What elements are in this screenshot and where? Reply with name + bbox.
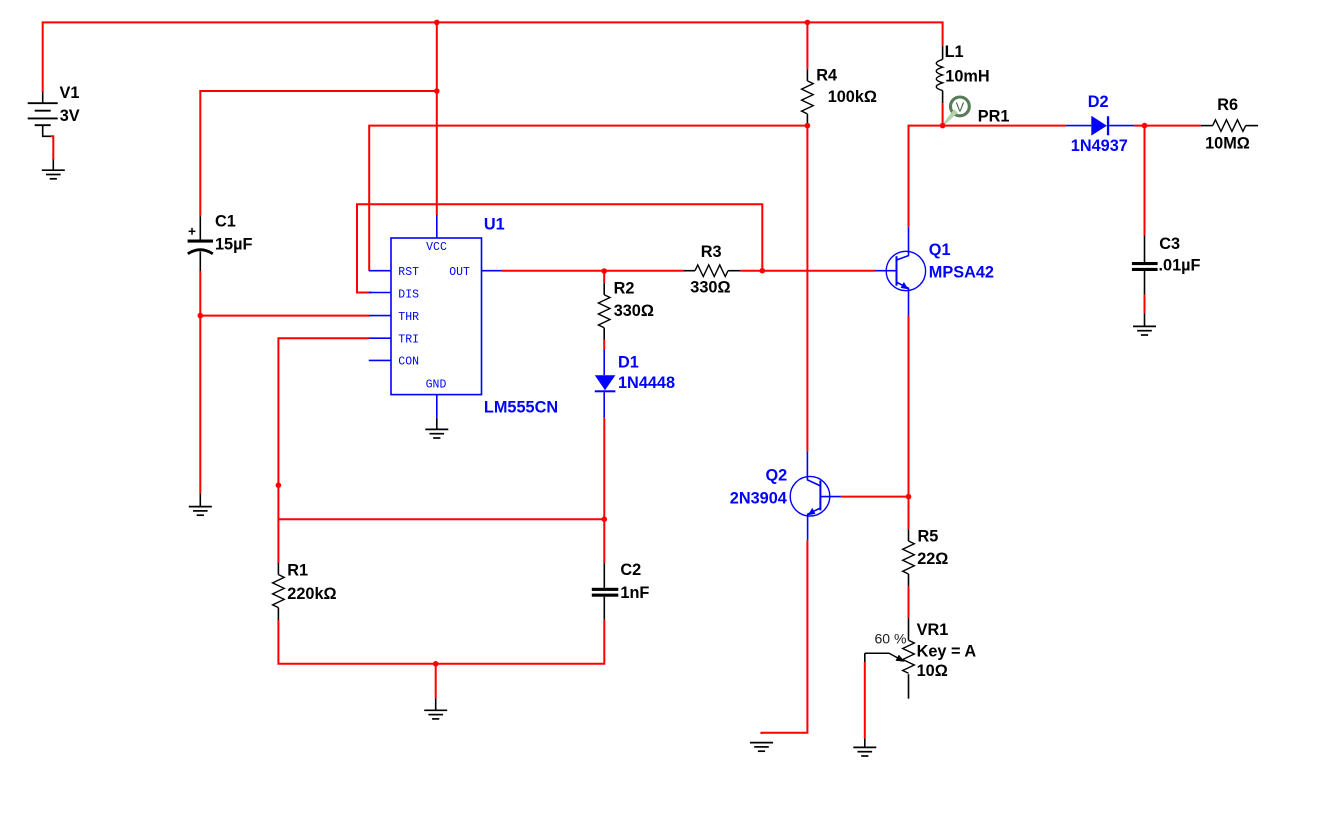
svg-text:1nF: 1nF [620,584,649,602]
svg-text:D2: D2 [1088,93,1109,111]
svg-text:C2: C2 [620,561,641,579]
svg-text:220kΩ: 220kΩ [287,585,336,603]
svg-text:R4: R4 [816,66,837,84]
svg-text:R1: R1 [287,561,308,579]
svg-text:U1: U1 [484,216,505,234]
svg-text:MPSA42: MPSA42 [929,264,994,282]
svg-text:1N4937: 1N4937 [1071,137,1128,155]
svg-text:V: V [956,101,965,115]
svg-text:Q1: Q1 [929,241,951,259]
svg-text:C1: C1 [215,213,236,231]
svg-text:RST: RST [398,266,419,279]
svg-text:VCC: VCC [426,241,447,254]
svg-text:.01µF: .01µF [1159,256,1201,274]
svg-text:GND: GND [426,378,447,391]
svg-text:1N4448: 1N4448 [618,374,675,392]
svg-text:R2: R2 [614,280,635,298]
svg-text:LM555CN: LM555CN [484,398,558,416]
svg-text:PR1: PR1 [978,107,1010,125]
svg-text:15µF: 15µF [215,235,252,253]
svg-text:OUT: OUT [449,266,470,279]
svg-text:2N3904: 2N3904 [730,489,787,507]
svg-text:22Ω: 22Ω [917,550,948,568]
svg-text:Key = A: Key = A [917,642,977,660]
svg-text:100kΩ: 100kΩ [828,88,877,106]
svg-text:D1: D1 [618,353,639,371]
svg-text:VR1: VR1 [917,621,949,639]
svg-text:330Ω: 330Ω [614,302,654,320]
svg-text:10mH: 10mH [945,68,989,86]
svg-text:3V: 3V [60,107,80,125]
svg-text:R5: R5 [918,528,939,546]
svg-text:L1: L1 [945,43,964,61]
svg-text:CON: CON [398,356,419,369]
svg-text:10Ω: 10Ω [917,662,948,680]
svg-text:C3: C3 [1159,235,1180,253]
svg-text:THR: THR [398,311,419,324]
svg-text:10MΩ: 10MΩ [1205,134,1250,152]
svg-text:V1: V1 [60,84,80,102]
svg-text:R6: R6 [1217,96,1238,114]
svg-text:60 %: 60 % [875,631,907,647]
svg-text:TRI: TRI [398,334,419,347]
svg-text:DIS: DIS [398,289,419,302]
svg-text:Q2: Q2 [766,466,788,484]
svg-text:R3: R3 [701,243,722,261]
svg-text:330Ω: 330Ω [690,279,730,297]
